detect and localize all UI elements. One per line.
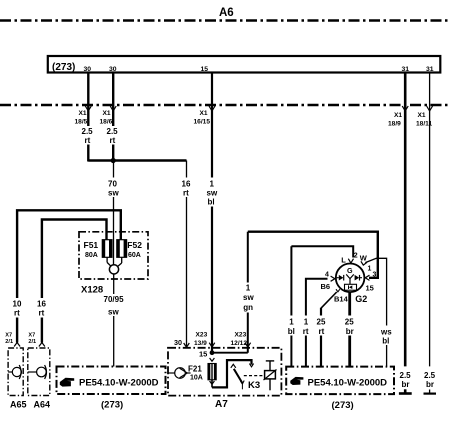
- svg-text:sw: sw: [108, 189, 119, 198]
- three-phase Y symbol: [346, 274, 354, 284]
- svg-text:sw: sw: [243, 293, 254, 302]
- connector X7 2/1 arrow a: [14, 343, 20, 347]
- horn A64 symbol: [28, 365, 47, 379]
- connector X7 2/1 arrow b: [39, 343, 45, 347]
- wire 25 rt to B14: [320, 308, 322, 367]
- wire 15 from box to A7: [211, 73, 213, 353]
- plug symbol in A7: [168, 368, 191, 379]
- wire label 16 rt (A64): [34, 298, 50, 318]
- fuse F21: [208, 364, 216, 380]
- regulator box in G2: [345, 284, 357, 290]
- svg-text:X128: X128: [81, 285, 103, 296]
- svg-text:X1: X1: [200, 110, 208, 117]
- svg-text:2.5: 2.5: [424, 371, 436, 380]
- fuse F21 arrows: [210, 358, 215, 361]
- svg-text:F21: F21: [188, 365, 202, 374]
- svg-text:A7: A7: [215, 399, 228, 410]
- wire 70/95 sw: [113, 274, 115, 367]
- svg-text:F51: F51: [84, 240, 99, 250]
- svg-text:2.5: 2.5: [400, 371, 412, 380]
- ground module box PE54 right: [286, 367, 394, 395]
- svg-text:1: 1: [304, 318, 309, 327]
- svg-text:18/5: 18/5: [75, 119, 88, 126]
- svg-text:70: 70: [108, 180, 117, 189]
- component box A7: [168, 348, 281, 396]
- svg-text:31: 31: [426, 66, 434, 73]
- wire label 70 sw: [105, 178, 122, 198]
- blade arrow: [240, 381, 244, 384]
- ground hand icon right: [290, 377, 303, 385]
- svg-text:31: 31: [402, 66, 410, 73]
- svg-text:bl: bl: [288, 327, 295, 336]
- svg-text:X1: X1: [394, 112, 402, 119]
- svg-text:X7: X7: [5, 333, 12, 339]
- svg-text:W: W: [360, 253, 368, 262]
- svg-text:gn: gn: [243, 303, 253, 312]
- wire label 25 br: [344, 316, 357, 336]
- svg-text:sw: sw: [108, 308, 119, 317]
- svg-text:2/1: 2/1: [5, 339, 13, 345]
- svg-text:A65: A65: [10, 400, 27, 410]
- svg-text:K3: K3: [248, 380, 260, 391]
- wire 31a ground bar: [399, 392, 412, 395]
- svg-text:B6: B6: [321, 282, 331, 291]
- svg-text:18/9: 18/9: [388, 121, 401, 128]
- svg-text:G: G: [347, 266, 353, 275]
- svg-text:2: 2: [354, 253, 358, 260]
- svg-text:30: 30: [84, 66, 92, 73]
- connector arrow 30 into A7: [184, 343, 190, 347]
- svg-text:rt: rt: [14, 309, 20, 318]
- connector X23 13/9 arrow: [209, 343, 215, 347]
- wire 16 rt thin down to A7: [186, 161, 188, 347]
- wire 31b ground bar: [424, 393, 437, 395]
- fuse output node circle: [109, 265, 118, 274]
- diode left: [339, 275, 344, 281]
- svg-text:F52: F52: [127, 240, 142, 250]
- svg-text:rt: rt: [183, 189, 189, 198]
- svg-text:bl: bl: [382, 337, 389, 346]
- fuse F52: [117, 240, 127, 267]
- svg-text:60A: 60A: [128, 252, 141, 259]
- svg-text:70/95: 70/95: [104, 295, 125, 304]
- generator G2 circle: [336, 264, 365, 293]
- svg-text:16/15: 16/15: [194, 119, 211, 126]
- svg-text:br: br: [346, 327, 354, 336]
- wire 25 br ground: [348, 292, 351, 366]
- terminal W arrow: [361, 261, 367, 265]
- wire G2 top thick: [248, 232, 378, 278]
- svg-text:rt: rt: [303, 327, 309, 336]
- wire label 2.5 rt b: [105, 126, 122, 145]
- terminal 4 arrow (B6): [331, 276, 335, 281]
- svg-text:G2: G2: [355, 294, 367, 304]
- svg-text:L: L: [341, 256, 346, 265]
- contact arrow right: [249, 364, 253, 367]
- connector X23 12/12 arrow: [245, 343, 251, 347]
- svg-text:PE54.10-W-2000D: PE54.10-W-2000D: [308, 377, 388, 388]
- svg-text:1: 1: [210, 180, 215, 189]
- ground hand icon left: [60, 378, 74, 387]
- wire 31b end stub: [429, 390, 431, 394]
- terminal B14 arrow: [336, 289, 340, 292]
- connector X1 pin 18/6 arrow: [110, 106, 116, 111]
- wire label 10 rt: [9, 298, 25, 318]
- horn A65 symbol: [8, 365, 21, 379]
- svg-text:4: 4: [325, 272, 329, 279]
- component box A64: [28, 348, 50, 396]
- wire ws bl from W: [365, 258, 386, 366]
- junction dot: [111, 158, 116, 163]
- svg-text:sw: sw: [207, 189, 218, 198]
- svg-text:ws: ws: [380, 328, 392, 337]
- component box 273 (fuse/relay box): [48, 56, 441, 73]
- wire label 1 bl: [287, 316, 297, 336]
- svg-text:2.5: 2.5: [82, 127, 94, 136]
- wire feed A64 horizontal: [42, 220, 107, 343]
- svg-text:16: 16: [182, 180, 191, 189]
- wire 30a from box to junction: [87, 73, 89, 162]
- wire 30b from box down: [112, 73, 114, 162]
- terminal L arrow: [348, 259, 353, 263]
- white gap for 31b label: [423, 368, 438, 389]
- svg-text:rt: rt: [85, 136, 91, 145]
- wire 31a thick: [404, 73, 407, 366]
- wire 1 sw gn vertical: [247, 232, 249, 353]
- svg-text:B14: B14: [334, 295, 349, 304]
- svg-text:rt: rt: [319, 327, 325, 336]
- wire label 2.5 rt a: [80, 126, 97, 145]
- svg-text:br: br: [426, 380, 434, 389]
- svg-text:18/11: 18/11: [416, 121, 432, 128]
- fuse F51: [102, 240, 112, 267]
- connector X1 pin 16/15 arrow: [209, 106, 215, 111]
- svg-text:30: 30: [109, 66, 117, 73]
- wire label 70/95 sw: [103, 294, 125, 316]
- wire 1 bl: [290, 246, 292, 366]
- wire label 25 rt: [315, 316, 328, 336]
- diode right: [355, 275, 360, 281]
- wire label 2.5 br a: [398, 368, 413, 389]
- svg-text:rt: rt: [39, 309, 45, 318]
- svg-text:25: 25: [317, 318, 326, 327]
- svg-text:A6: A6: [219, 7, 234, 19]
- wire 31b thin: [429, 73, 431, 366]
- wire label 16 rt: [179, 178, 194, 198]
- svg-text:br: br: [402, 380, 410, 389]
- connector X1 pin 18/9 arrow: [402, 106, 408, 111]
- ground module box PE54 left: [57, 367, 166, 395]
- svg-text:(273): (273): [332, 400, 354, 411]
- wire label 1 sw bl (wire 15): [204, 178, 220, 207]
- svg-text:10A: 10A: [190, 375, 203, 382]
- wire junction bus horizontal: [88, 159, 186, 161]
- svg-text:X1: X1: [79, 110, 87, 117]
- svg-text:(273): (273): [52, 62, 75, 73]
- relay K3 contact path: [212, 360, 252, 387]
- component box A65: [8, 348, 23, 396]
- contact arrow left: [231, 364, 236, 368]
- svg-text:PE54.10-W-2000D: PE54.10-W-2000D: [79, 377, 159, 388]
- wire feed A65 horizontal: [17, 210, 121, 342]
- blade tail: [241, 384, 243, 389]
- svg-text:1: 1: [368, 266, 372, 273]
- relay blade: [234, 369, 243, 384]
- wire rail top border A6: [0, 19, 451, 22]
- connector X1 pin 18/5 arrow: [85, 106, 91, 111]
- wire label ws bl: [380, 326, 394, 346]
- terminal 3 arrow: [365, 275, 369, 280]
- svg-text:15: 15: [366, 284, 374, 293]
- svg-text:16: 16: [37, 300, 46, 309]
- svg-text:18/6: 18/6: [100, 119, 113, 126]
- wire F21 bottom: [211, 380, 213, 388]
- svg-text:30: 30: [174, 338, 182, 347]
- wire 70 sw to fuse box: [113, 161, 115, 266]
- wire 31a end stub: [404, 389, 407, 393]
- svg-text:rt: rt: [110, 136, 116, 145]
- svg-text:15: 15: [201, 66, 209, 73]
- svg-text:10: 10: [13, 300, 22, 309]
- fuse box X128 dash-dot: [79, 232, 148, 279]
- svg-text:1: 1: [246, 284, 251, 293]
- wire B6 horizontal: [306, 279, 328, 367]
- svg-text:bl: bl: [208, 198, 215, 207]
- svg-text:3: 3: [373, 272, 377, 279]
- wire node15 to X23 12/12 leg: [212, 352, 248, 354]
- svg-text:1: 1: [289, 318, 294, 327]
- svg-text:X23: X23: [196, 332, 208, 339]
- relay K3 coil: [264, 361, 277, 390]
- wire label 1 rt: [301, 316, 311, 336]
- svg-text:2/1: 2/1: [28, 339, 36, 345]
- svg-text:(273): (273): [101, 400, 123, 411]
- svg-text:2.5: 2.5: [107, 127, 119, 136]
- wire rail harness X1: [0, 104, 451, 107]
- wire label 1 sw gn: [241, 283, 256, 313]
- connector X1 pin 18/11 arrow: [427, 106, 433, 111]
- svg-text:X1: X1: [103, 110, 111, 117]
- svg-text:13/9: 13/9: [194, 340, 207, 347]
- node 15 junction dot: [210, 350, 215, 355]
- svg-text:X7: X7: [28, 333, 35, 339]
- svg-text:25: 25: [345, 318, 354, 327]
- svg-text:A64: A64: [34, 400, 51, 410]
- relay actuation dashed line: [244, 375, 264, 377]
- svg-text:X23: X23: [235, 332, 247, 339]
- svg-text:X1: X1: [418, 112, 426, 119]
- svg-text:15: 15: [199, 350, 207, 359]
- wire L terminal horizontal: [291, 246, 353, 257]
- svg-text:80A: 80A: [85, 252, 98, 259]
